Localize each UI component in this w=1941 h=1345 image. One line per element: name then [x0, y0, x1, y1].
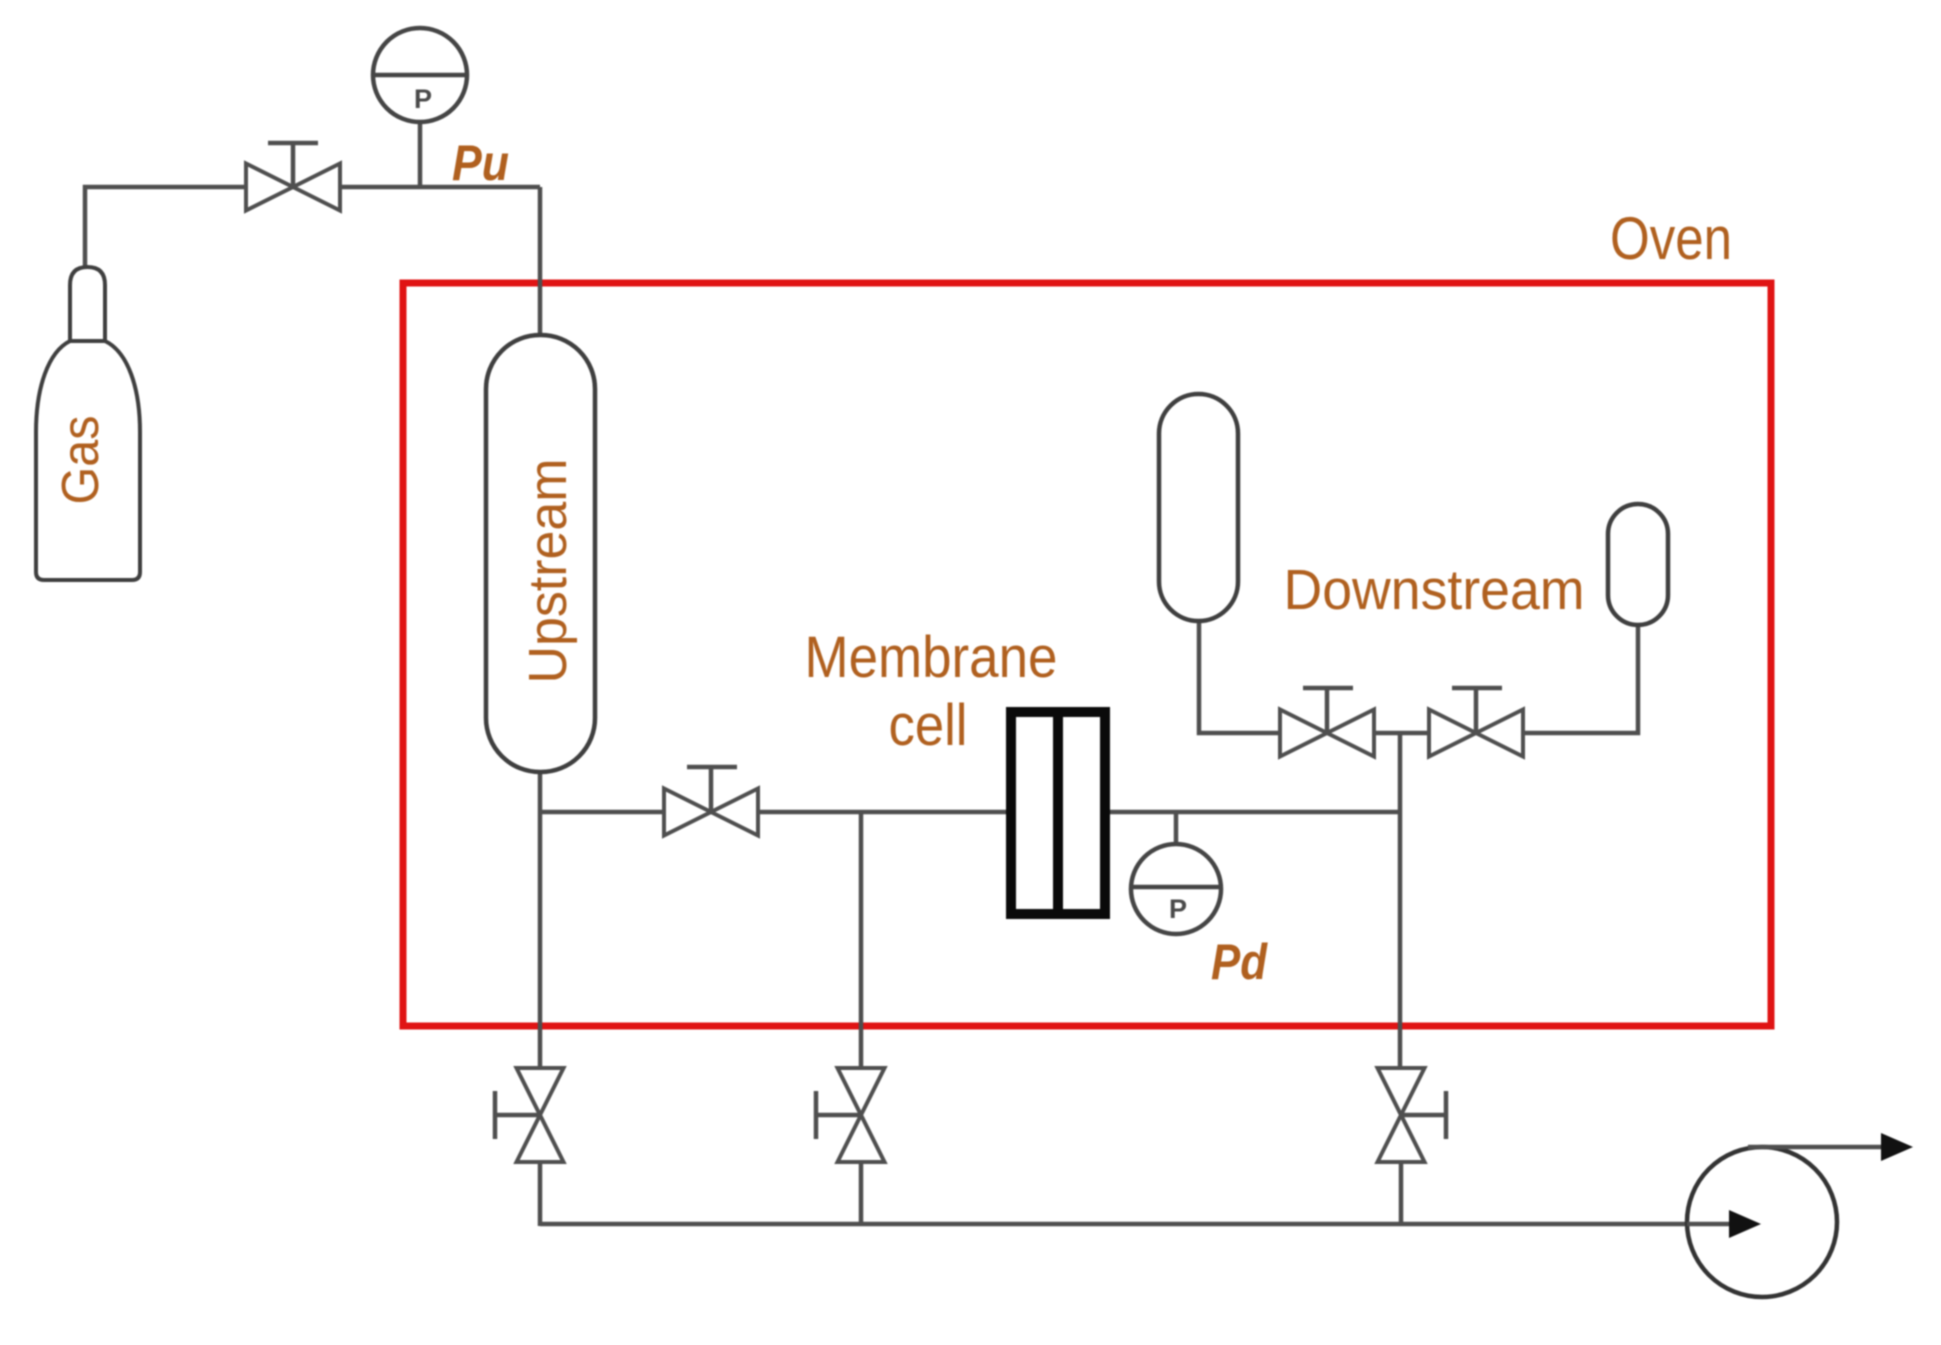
pump inlet line with arrowhead — [1687, 1222, 1731, 1227]
pump outlet arrow — [1748, 1145, 1883, 1150]
bottom valve BV3 — [1378, 1068, 1447, 1162]
wire: tee down to upstream vessel — [538, 187, 543, 335]
wire: permeate branch down to bottom valve BV2 — [859, 812, 864, 1068]
wire: bottom valve BV3 outlet — [1399, 1162, 1404, 1226]
wire: gas cylinder up and over to valve V1 — [85, 187, 540, 267]
svg-text:cell: cell — [889, 693, 968, 758]
oven enclosure (red border) — [403, 283, 1771, 1026]
svg-text:Downstream: Downstream — [1284, 558, 1585, 622]
valve V1 (gas inlet valve) — [246, 143, 340, 211]
valve V2 (upstream valve) — [664, 767, 758, 836]
wire: between downstream valves V3 and V4 — [1374, 731, 1429, 736]
svg-text:Pd: Pd — [1211, 934, 1268, 990]
gas cylinder — [36, 267, 140, 580]
svg-text:Oven: Oven — [1610, 205, 1732, 272]
svg-text:Membrane: Membrane — [805, 625, 1058, 690]
pressure gauge Pd — [1131, 844, 1221, 934]
wire: large downstream vessel drop line — [1199, 621, 1280, 733]
wire: main line from membrane cell to downstream junction — [1105, 810, 1400, 815]
downstream vessel (large) — [1159, 394, 1238, 621]
svg-text:P: P — [1169, 894, 1187, 924]
wire: main line from upstream vessel to membrane cell — [540, 810, 1011, 815]
wire: bottom valve BV2 outlet — [859, 1162, 864, 1226]
vacuum pump — [1687, 1147, 1837, 1297]
membrane cell — [1011, 709, 1105, 917]
pressure gauge Pu — [373, 28, 467, 122]
svg-text:Upstream: Upstream — [518, 459, 578, 684]
svg-text:Gas: Gas — [52, 416, 110, 505]
valve V4 (downstream valve right) — [1429, 688, 1523, 757]
bottom valve BV2 — [816, 1068, 885, 1162]
wire: bottom manifold line to vacuum pump — [540, 1222, 1731, 1227]
wire: upstream vessel bottom to main line and down to bottom valve BV1 — [538, 772, 543, 1068]
wire: pressure gauge Pd stem — [1174, 812, 1179, 844]
wire: valve V4 to small downstream vessel — [1523, 625, 1638, 733]
wire: pressure gauge Pu stem — [418, 122, 423, 187]
wire: downstream junction vertical line — [1398, 733, 1403, 1068]
upstream vessel — [486, 335, 595, 772]
svg-text:P: P — [414, 84, 432, 114]
valve V3 (downstream valve left) — [1280, 688, 1374, 757]
svg-text:Pu: Pu — [452, 135, 509, 191]
wire: bottom valve BV1 outlet — [538, 1162, 543, 1226]
bottom valve BV1 — [495, 1068, 564, 1162]
downstream vessel (small) — [1608, 504, 1668, 625]
